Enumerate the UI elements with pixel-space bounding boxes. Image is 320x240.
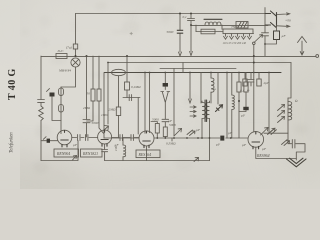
resistor R2a box on line C [201, 29, 215, 34]
wire R4 left corner down [107, 63, 109, 125]
wire C3 stubs [265, 25, 277, 44]
wire vertical x180 [179, 14, 181, 53]
wire bottom loop [41, 141, 78, 161]
mains plug bar [276, 13, 278, 27]
resistor R-drop hatching [238, 22, 247, 28]
resistor R-taps long box [223, 29, 253, 34]
svg-text:100: 100 [114, 146, 118, 151]
capacitor C180 dark [177, 30, 183, 33]
resistor box 0.1M [125, 82, 130, 90]
dial lamp La circle [71, 58, 80, 67]
valve V2 electrodes [101, 130, 108, 146]
wire V4 cathode down [256, 147, 296, 158]
resistor R-drop hatched on R2 [236, 22, 248, 29]
svg-text:T 40 G: T 40 G [7, 68, 18, 100]
speaker arrows [278, 105, 285, 123]
node dot R2 x191 [190, 24, 192, 26]
valve V3 electrodes [143, 131, 150, 148]
speaker coil vertical line [287, 98, 289, 133]
mains cord upper with arrow [277, 13, 290, 15]
wire V3 cathode [146, 146, 148, 161]
wire tick below rail [171, 138, 173, 141]
resistor box 2M [116, 107, 120, 116]
wire x201 column [200, 73, 202, 104]
capacitor on Y stem [162, 119, 169, 121]
speaker coil loops [288, 102, 292, 120]
transformer right arrow diag [216, 105, 223, 112]
choke coil under V2 [122, 138, 124, 146]
wire x93 column [92, 56, 94, 89]
wire volume rail [104, 137, 248, 139]
node dot x239 y101 [238, 100, 240, 102]
coil on x231 [232, 95, 235, 110]
ground arrow chassis double chevron [287, 158, 307, 167]
wire oval column x118 [118, 76, 120, 138]
valve V4 electrodes [252, 132, 260, 149]
zigzag resistor on x41 [39, 106, 44, 120]
wire x99 column [98, 56, 100, 89]
wire x190 arrow into transformer [189, 73, 191, 100]
node dot R1 x180 [179, 13, 181, 15]
ground tick bottom middle [194, 158, 199, 162]
arrow tip x180 [179, 52, 182, 56]
capacitor on x41 [38, 100, 45, 103]
wire H97 link [123, 97, 140, 99]
wire rail R4 [108, 62, 291, 64]
svg-text:(7a): (7a) [66, 46, 73, 50]
paper background [0, 0, 320, 189]
wire bottom return line [105, 160, 210, 162]
wire R6 left corner down x104 [103, 73, 105, 139]
mains cord lower with arrow [277, 25, 290, 27]
resistor box x157 [155, 124, 159, 134]
trimmer cap near 190 [187, 130, 195, 136]
paper dark corners [0, 155, 85, 215]
faint cross mark [130, 32, 132, 34]
svg-text:5000: 5000 [167, 30, 174, 34]
valve V2 label box [81, 149, 103, 157]
transformer T1 right winding [206, 103, 210, 119]
arrow into valve V4 [261, 128, 269, 136]
antenna arrow symbol top right [298, 37, 307, 56]
node dot x230 rail [230, 137, 232, 139]
wire x239 lower [238, 92, 240, 138]
wire lamp bottom [61, 67, 76, 87]
node dot x202 rail [201, 137, 203, 139]
lamp feed: node dot x75 R3 [75, 55, 77, 57]
transformer T1 stubs [202, 101, 210, 138]
capacitor block x259 [257, 79, 261, 86]
capacitor C3 block right of C2 [274, 31, 280, 40]
wire x259 stub [258, 73, 260, 80]
wire Y stem lower [164, 122, 166, 127]
wire trimmer link y133 [264, 132, 288, 134]
switch S1 arrow [254, 35, 263, 43]
wire cap to corner [296, 144, 305, 160]
svg-text:5000: 5000 [92, 121, 99, 125]
wire x165 column from rail [164, 73, 166, 84]
wire x231 column with coil [231, 73, 233, 96]
capacitor series bottom right [292, 140, 295, 149]
svg-text:2MΩ: 2MΩ [83, 106, 91, 110]
svg-text:Ω: Ω [295, 99, 298, 103]
wire x291 column (R4 right end down) [288, 63, 291, 99]
node dot x266 C3 join [264, 43, 266, 45]
wire x157 top stub [151, 122, 157, 124]
arrow tip x190 [189, 99, 192, 103]
tick above blob [47, 89, 50, 92]
wire x149 column to valve 3 [149, 73, 151, 133]
dial lamp La cross [72, 59, 78, 65]
wire V2 cathode [104, 144, 106, 161]
node dots volume rail [156, 137, 158, 139]
wire x61 column [60, 87, 62, 134]
trimmer T1 arrow [268, 128, 276, 134]
wire left column x41 [40, 56, 42, 161]
wire rail R2 [191, 24, 268, 26]
wire x227 column [226, 73, 228, 139]
resistor box x165 [163, 127, 167, 137]
node dots on R6 [144, 72, 146, 74]
wire valve1 grid [41, 140, 58, 142]
wire plug junction vertical x265 [264, 8, 266, 26]
wire line C [196, 31, 223, 33]
node dot x254 R3 [253, 55, 255, 57]
fuse oval on R6 [112, 69, 126, 75]
inductor L1 core bar on R2 [204, 18, 222, 20]
trimmer T2 bars [282, 140, 290, 146]
series capacitor dark before valve4 [220, 136, 224, 141]
trimmer T1 bars [269, 129, 277, 135]
wire x191 lower arrow [190, 25, 193, 56]
transformer T1 core [205, 100, 207, 122]
wire x174 column [173, 69, 175, 137]
valve V1 label box [54, 149, 79, 157]
node dot x127 R3 [126, 55, 128, 57]
svg-text:RES164: RES164 [138, 153, 152, 157]
paper mottling [111, 30, 127, 34]
wire x165 below block [164, 87, 166, 90]
trimmer near valve2 [104, 126, 109, 131]
fuse F1 on x77 [73, 44, 77, 49]
capacitor blob on x52 [50, 93, 55, 97]
wire x145 column to valve 3 [144, 73, 146, 134]
oscillator coil on x211 [210, 73, 212, 104]
svg-text:5000: 5000 [169, 123, 176, 127]
capacitor series on H97 [129, 95, 131, 101]
svg-text:1000: 1000 [101, 113, 108, 117]
wire x52 down [52, 97, 61, 121]
wire x269 column [268, 73, 270, 134]
svg-text:Telefunken: Telefunken [10, 132, 15, 153]
node dot R1 x191 [190, 13, 192, 15]
wire vertical feed x77 [75, 14, 77, 57]
resistor box x239 [238, 73, 240, 83]
arrow tick bottom left [73, 156, 77, 161]
node rail R3 end circle [316, 55, 319, 58]
wire rail R5 [160, 68, 236, 70]
pickup fork Y symbol [161, 92, 170, 120]
valve V4 envelope [248, 132, 264, 148]
wire vertical x191 upper [190, 14, 192, 26]
capacitor dark x246 [243, 107, 248, 110]
wire vertical x266 plugs to R3 [264, 25, 266, 56]
coupling capacitor V1-V2 a [72, 135, 84, 141]
wire top rail R1 [76, 13, 266, 15]
capacitor under V2 [102, 150, 108, 152]
wire x127 column [126, 56, 128, 98]
svg-text:≈50: ≈50 [286, 19, 292, 23]
tick above grid condenser [43, 137, 46, 140]
mains plug upper prong P1 [265, 11, 276, 16]
mains plug lower prong P2 [265, 23, 276, 28]
capacitor x251 [248, 80, 254, 83]
wire x231 lower [231, 110, 233, 139]
capacitor C86 [83, 120, 90, 123]
node dot x254 R4 [253, 62, 255, 64]
wire rail R6 [104, 72, 240, 74]
node dot x209 rail [209, 137, 211, 139]
svg-text:REN1821: REN1821 [82, 152, 98, 156]
svg-text:D4×: D4× [57, 49, 64, 53]
resistor box x99 [97, 89, 101, 101]
paper light center wash [0, 0, 210, 155]
grid condenser dark block [47, 139, 50, 143]
wire tapped resistor to switch [252, 32, 255, 34]
coupling capacitor V2-V3 b [131, 135, 139, 141]
svg-text:110 125 150 200 240: 110 125 150 200 240 [223, 42, 247, 45]
wire speaker bottom down [288, 133, 292, 144]
valve V1 electrodes [61, 130, 68, 147]
valve V3 envelope [139, 131, 154, 146]
svg-text:MB/8´84: MB/8´84 [58, 69, 71, 73]
coupling capacitor V2-V3 a [112, 135, 130, 141]
svg-text:5000: 5000 [152, 118, 159, 122]
wire x93 lower [87, 101, 94, 121]
node dot x86 R3 [86, 55, 88, 57]
wire rail R6 heavy right part [240, 72, 281, 74]
wire V4 top feed [253, 73, 255, 132]
node dot R4 x108 [107, 62, 109, 64]
wire x99 to valve 2 [99, 101, 104, 133]
wire x86 column [86, 56, 88, 137]
capacitor C2 on x266 [262, 33, 269, 36]
svg-text:µ: µ [214, 87, 216, 91]
capacitor C1 at x191 [188, 19, 195, 21]
svg-text:2MΩ: 2MΩ [109, 108, 117, 112]
svg-text:7500: 7500 [231, 25, 238, 29]
wire x246 to x239 [239, 110, 246, 111]
switch S1 contact circle [253, 42, 256, 45]
wire x251 stub [250, 73, 252, 87]
wire switch stem x254 [253, 45, 255, 73]
transformer T1 left winding [202, 103, 206, 119]
resistor D4 box on R3 [56, 54, 67, 59]
wire x218 stub [217, 73, 219, 105]
capacitor block x245 [243, 79, 247, 86]
wire x245 stub component [244, 73, 246, 80]
wire grid feed valve3 [137, 98, 139, 135]
wire x246 lower [245, 92, 247, 107]
potentiometer arrow [174, 129, 182, 137]
wire stub line C right to R2 [221, 25, 223, 29]
coupling capacitor V1-V2 b [86, 135, 98, 141]
svg-text:REN904: REN904 [56, 152, 70, 156]
resistor Rv1b oval on x61 [59, 105, 64, 113]
transformer left arrows [190, 106, 196, 117]
resistor box x246 [245, 73, 247, 83]
capacitor dark block x165 [163, 83, 168, 87]
resistor box x93 [91, 89, 95, 101]
wire x183 top vertical from R1 area [182, 63, 184, 73]
valve V2 envelope [98, 130, 112, 144]
tap arrows under tapped resistor [224, 34, 252, 40]
wire rail R3 [41, 55, 316, 57]
svg-text:50: 50 [87, 92, 91, 96]
wire x157 column [156, 133, 158, 138]
valve V1 envelope [57, 130, 72, 145]
wire stub R2 to line C left [195, 25, 197, 32]
svg-text:RES964: RES964 [256, 154, 270, 158]
resistor Rv1a oval on x61 [59, 88, 64, 96]
inductor L1 windings [205, 22, 221, 25]
valve V3 label box [136, 150, 160, 158]
wire x209 transformer bottom down [209, 121, 211, 161]
